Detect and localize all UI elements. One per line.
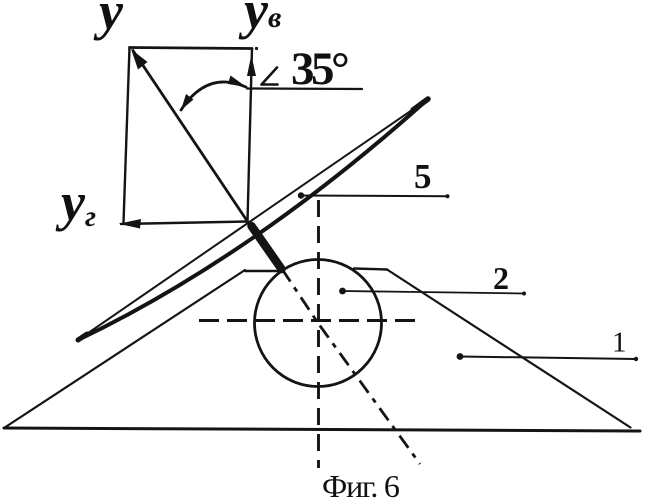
35 degrees underline: [247, 87, 362, 90]
leader line 1 dot: [457, 353, 464, 360]
svg-text:Фиг. 6: Фиг. 6: [322, 468, 400, 500]
vector Uv arrowhead: [247, 55, 256, 76]
trapezoid 1 top edge left segment: [245, 270, 279, 272]
vector U extension below corner: [248, 222, 253, 228]
blade 5 thick lower edge: [78, 99, 428, 340]
angle symbol: [262, 68, 278, 85]
circle 2 shaft: [255, 260, 382, 387]
vector U arrowhead: [131, 49, 148, 70]
leader line 5 dot: [298, 192, 304, 198]
svg-text:1: 1: [612, 327, 627, 359]
leader line 5 end blob: [446, 194, 450, 198]
svg-text:2: 2: [493, 260, 509, 296]
angle arc: [181, 82, 246, 110]
vector Ug arrowhead: [119, 219, 142, 229]
vector Ug line (bottom edge): [121, 222, 248, 225]
leader line 2 dot: [339, 288, 346, 295]
svg-text:35°: 35°: [291, 43, 348, 95]
vector U diagonal: [133, 51, 248, 222]
leader line 1 end blob: [634, 357, 638, 361]
svg-text:уг: уг: [55, 172, 96, 233]
vector rectangle left edge: [124, 48, 130, 223]
vertical centerline: [317, 200, 320, 468]
angle arc right arrowhead: [228, 76, 247, 88]
thick mount bar: [252, 226, 282, 269]
trapezoid 1 left slope: [4, 270, 245, 428]
leader line 2 end blob: [522, 292, 526, 296]
horizontal centerline: [199, 319, 417, 322]
trapezoid 1 top edge right segment: [354, 269, 387, 270]
blade 5 right tip: [413, 99, 428, 110]
trapezoid 1 bottom edge: [4, 428, 640, 431]
diagonal axis dash-dot: [282, 269, 420, 464]
vector rectangle top edge: [130, 48, 253, 49]
trapezoid 1 right slope: [387, 270, 631, 428]
angle arc left arrowhead: [181, 94, 194, 110]
svg-text:5: 5: [414, 157, 432, 196]
blade 5 left tip: [78, 334, 87, 340]
svg-text:у: у: [93, 0, 124, 41]
leader line 2: [343, 291, 525, 294]
dot near top right corner: [255, 47, 258, 50]
leader line 1: [460, 357, 637, 360]
svg-text:ув: ув: [238, 0, 281, 40]
vector Uv line (right edge): [248, 49, 253, 222]
blade 5 top edge: [78, 99, 428, 340]
leader line 5: [301, 195, 448, 198]
